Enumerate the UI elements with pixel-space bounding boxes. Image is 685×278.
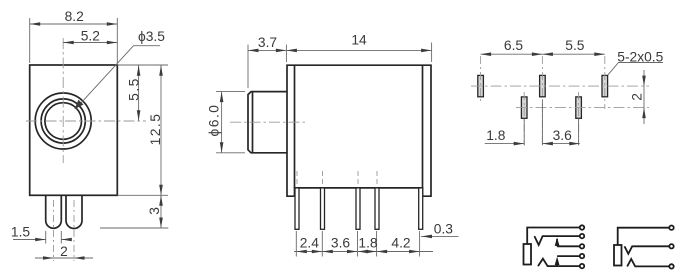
pins bottom extension line	[100, 227, 168, 229]
barrel centerline	[230, 121, 308, 123]
svg-text:4.2: 4.2	[391, 235, 410, 250]
inner right wall line	[422, 65, 424, 188]
pad5 centerline	[578, 92, 580, 145]
barrel (bushing)	[248, 92, 287, 153]
pad3 centerline	[604, 56, 606, 109]
dim phi6.0 extension lines	[216, 92, 245, 153]
dim 3.7/14 extension lines	[248, 43, 432, 89]
pin1 centerline	[53, 200, 55, 261]
svg-text:ϕ6.0: ϕ6.0	[207, 104, 222, 137]
terminal 4	[580, 254, 584, 258]
chain dim line	[294, 251, 433, 253]
svg-text:1.5: 1.5	[11, 224, 31, 239]
pin stub centerlines inside body	[297, 171, 377, 187]
inner left wall line	[294, 65, 296, 188]
pad2 centerline	[541, 56, 543, 145]
vertical centerline	[62, 38, 64, 163]
jack middle circle	[41, 99, 85, 143]
dim 2 text	[629, 93, 644, 101]
pad 3 (slot)	[602, 75, 608, 96]
wire sleeve to terminal 1	[618, 228, 669, 245]
dim phi6.0 text	[207, 104, 222, 137]
pad1 centerline	[480, 56, 482, 103]
body side outline with feet	[287, 65, 431, 196]
dim 1.5 line	[13, 239, 71, 241]
dim 1.8/3.6 extension lines	[524, 100, 578, 145]
dim 5.5 text	[126, 77, 141, 101]
switch arrow and wire to terminal 4	[557, 256, 579, 266]
wire sleeve to terminal 1	[527, 228, 579, 245]
dim 12.5 text	[148, 113, 163, 146]
sleeve contact rectangle	[524, 244, 532, 265]
svg-text:0.3: 0.3	[434, 222, 454, 237]
terminal 1	[580, 225, 584, 229]
pin 5	[419, 188, 423, 229]
svg-text:2: 2	[629, 93, 644, 101]
dim 8.2 line	[30, 23, 118, 25]
bottom extension line	[117, 194, 168, 196]
tip contact V and wire to terminal 2	[625, 246, 669, 254]
svg-text:6.5: 6.5	[504, 38, 524, 53]
pin 4	[375, 188, 379, 229]
barrel chamfer line	[252, 93, 254, 153]
horizontal centerline	[26, 120, 146, 122]
right solder pin	[66, 195, 82, 228]
row2 centerline	[516, 107, 649, 109]
terminal 2	[669, 244, 673, 248]
jack outer circle	[35, 93, 91, 149]
pin 1	[295, 188, 299, 229]
dim 8.2 extension lines	[30, 18, 118, 63]
ring contact caret and wire to terminal 3	[627, 259, 669, 267]
pad 2 (slot)	[540, 75, 546, 96]
pad 1 (slot)	[478, 75, 484, 96]
pad4 centerline	[523, 92, 525, 145]
svg-text:1.8: 1.8	[358, 235, 378, 250]
svg-text:14: 14	[351, 32, 367, 47]
dim 0.3 line	[421, 235, 459, 237]
terminal 3	[669, 264, 673, 268]
svg-text:2.4: 2.4	[300, 235, 320, 250]
svg-text:3: 3	[147, 207, 162, 215]
terminal 3	[580, 244, 584, 248]
dim 2 line (vertical)	[643, 70, 645, 124]
dim 3 line	[160, 195, 162, 228]
dim phi6.0 line	[221, 92, 223, 153]
pin 3	[356, 188, 360, 229]
dim 3.7 line	[248, 49, 286, 51]
svg-text:ϕ3.5: ϕ3.5	[138, 29, 165, 44]
chain dim extension lines	[296, 231, 419, 257]
row1 centerline	[471, 85, 649, 87]
dim 3 text	[147, 207, 162, 215]
svg-text:5.2: 5.2	[81, 29, 100, 44]
jack inner circle (phi 3.5 hole)	[45, 103, 82, 140]
svg-text:2: 2	[60, 244, 68, 259]
body front outline	[30, 65, 118, 195]
leader 5-2x0.5	[608, 63, 663, 75]
pad 5 (slot lower)	[576, 97, 582, 118]
svg-text:12.5: 12.5	[148, 113, 163, 146]
dim 6.5/5.5 line	[481, 53, 605, 55]
dim 12.5 line	[160, 65, 162, 195]
leader phi3.5	[76, 46, 160, 108]
svg-text:5.5: 5.5	[126, 77, 141, 101]
sleeve contact rectangle	[614, 245, 622, 266]
terminal 1	[669, 226, 673, 230]
pad 4 (slot lower)	[521, 97, 527, 118]
dim 5.5 line	[138, 65, 140, 121]
dim 1.5 extension lines	[46, 231, 62, 244]
dim 14 line	[286, 49, 431, 51]
svg-text:5.5: 5.5	[565, 38, 585, 53]
svg-text:1.8: 1.8	[486, 128, 506, 143]
dim 1.8 line	[485, 143, 524, 145]
svg-text:5-2x0.5: 5-2x0.5	[617, 49, 663, 64]
tip contact V and wire to terminal 2	[534, 236, 579, 245]
pin2 centerline	[73, 200, 75, 261]
svg-text:3.6: 3.6	[331, 235, 351, 250]
terminal 2	[580, 234, 584, 238]
dim 3.6 line	[542, 143, 579, 145]
dim 5.2 line	[63, 42, 117, 44]
left solder pin	[46, 195, 62, 228]
switch arrow and wire to terminal 3	[557, 239, 579, 246]
svg-text:8.2: 8.2	[65, 9, 84, 24]
ring contact caret and wire to terminal 5	[538, 259, 579, 266]
svg-text:3.6: 3.6	[553, 128, 573, 143]
terminal 5	[580, 264, 584, 268]
dim 2 line	[35, 257, 93, 259]
svg-text:3.7: 3.7	[258, 35, 277, 50]
top-right extension line	[117, 64, 168, 66]
pin 2	[321, 188, 325, 229]
